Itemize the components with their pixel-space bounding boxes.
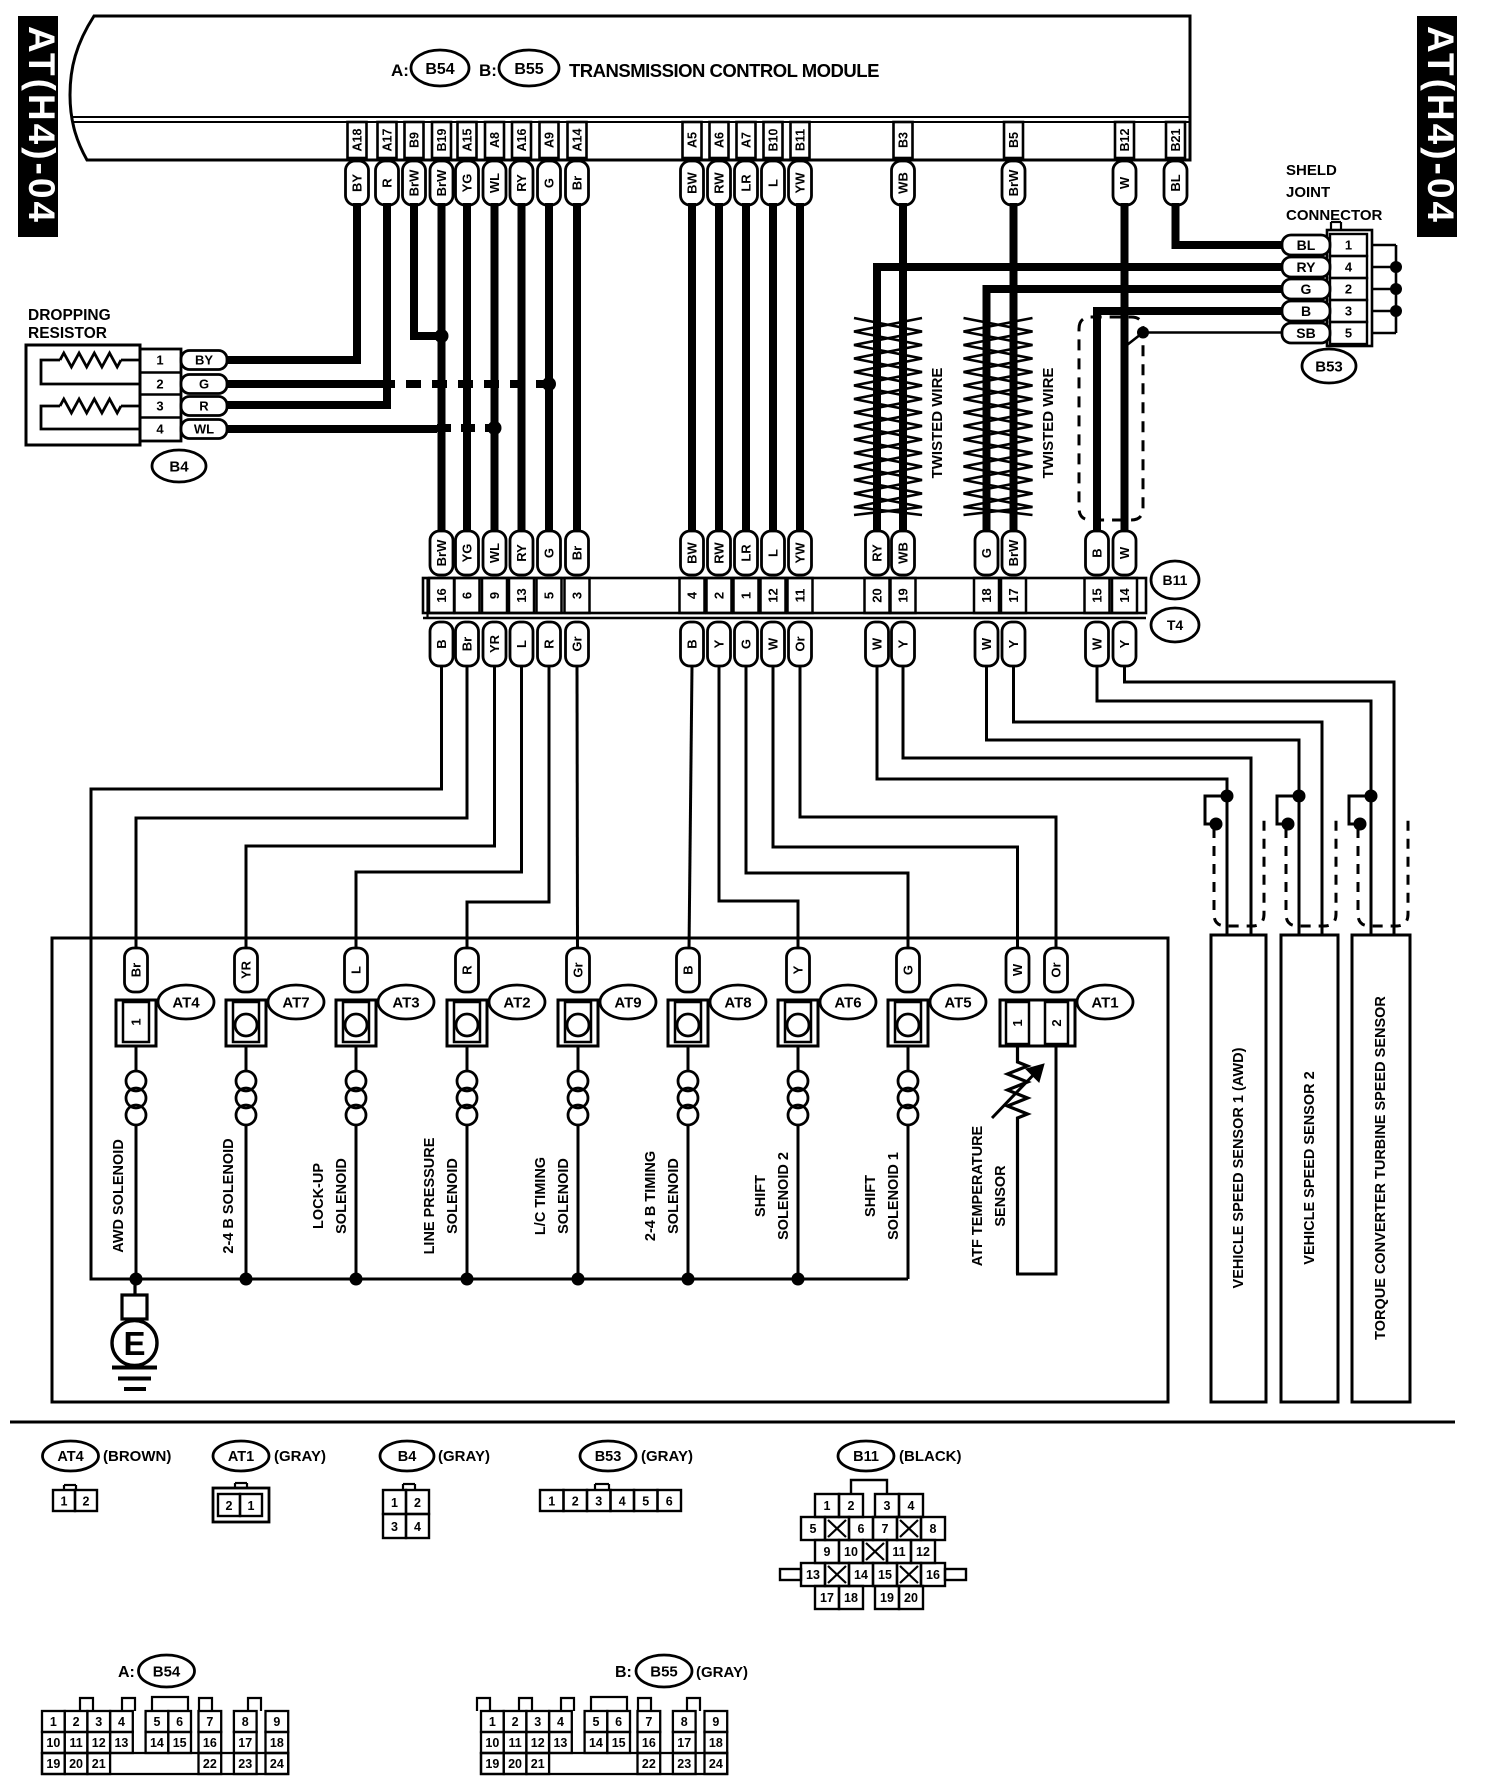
svg-text:AT2: AT2 — [503, 994, 530, 1011]
svg-text:2: 2 — [226, 1499, 233, 1513]
svg-text:B55: B55 — [514, 61, 543, 78]
label 2-4 B TIMING SOLENOID — [643, 1151, 682, 1241]
svg-text:9: 9 — [487, 592, 502, 599]
svg-text:SOLENOID: SOLENOID — [445, 1158, 461, 1234]
svg-text:8: 8 — [681, 1715, 688, 1729]
wire label W below pin 18 — [975, 622, 998, 666]
svg-text:W: W — [1117, 546, 1132, 559]
svg-text:YG: YG — [460, 174, 475, 193]
wire L from B10 to connector pin 12 — [769, 203, 777, 533]
svg-text:G: G — [901, 965, 916, 975]
wire label LR above pin 1 — [735, 531, 758, 575]
svg-text:SHELD: SHELD — [1286, 162, 1337, 179]
junction dot on ground bus x=246 — [240, 1273, 253, 1286]
svg-text:G: G — [979, 548, 994, 558]
svg-text:17: 17 — [238, 1736, 252, 1750]
label L/C TIMING SOLENOID — [533, 1157, 572, 1235]
ATF temperature sensor thermistor — [992, 1046, 1044, 1274]
svg-text:RESISTOR: RESISTOR — [28, 325, 107, 342]
svg-text:B4: B4 — [169, 458, 189, 475]
svg-text:B21: B21 — [1169, 128, 1183, 151]
svg-text:YW: YW — [793, 172, 808, 194]
svg-text:W: W — [766, 637, 781, 650]
shield drain connection to SB wire — [1127, 327, 1286, 346]
svg-text:A9: A9 — [543, 132, 557, 148]
solenoid connector body AT8 — [668, 1000, 708, 1046]
TCM pin A5 — [683, 122, 702, 158]
svg-text:22: 22 — [203, 1757, 217, 1771]
svg-text:20: 20 — [904, 1591, 918, 1605]
ATF temperature sensor loop — [1018, 1046, 1057, 1274]
svg-text:13: 13 — [553, 1736, 567, 1750]
wire B from pin 4 to 2-4 B timing solenoid — [689, 666, 692, 950]
svg-text:ATF TEMPERATURE: ATF TEMPERATURE — [970, 1125, 986, 1266]
dropping resistor connector pins — [140, 349, 181, 441]
svg-text:Or: Or — [793, 636, 808, 651]
wire label WL above pin 9 — [483, 531, 506, 575]
svg-text:15: 15 — [612, 1736, 626, 1750]
connector label AT3 — [378, 985, 434, 1019]
svg-text:SHIFT: SHIFT — [753, 1175, 769, 1217]
legend AT4 pin layout — [53, 1485, 97, 1511]
junction dot G / dropping resistor pin 2 — [542, 377, 556, 391]
shield joint connector terminal G pin 2 — [1282, 279, 1330, 299]
svg-text:BrW: BrW — [434, 539, 449, 566]
wire label L at pin B10 — [762, 161, 785, 205]
wire R from A17 to dropping resistor pin 3 — [226, 203, 387, 405]
TCM pin A9 — [540, 122, 559, 158]
wire BrW from B5 to connector pin 17 (twisted) — [1010, 203, 1018, 533]
wire label G below pin 1 — [735, 622, 758, 666]
svg-text:AT4: AT4 — [172, 994, 200, 1011]
legend connector A: B54 — [118, 1655, 195, 1687]
svg-text:20: 20 — [508, 1757, 522, 1771]
wire BW from A5 to connector pin 4 — [688, 203, 696, 533]
wire YW from B11 to connector pin 11 — [796, 203, 804, 533]
wire label Br at pin A14 — [566, 161, 589, 205]
svg-text:14: 14 — [854, 1568, 868, 1582]
wire label YW at pin B11 — [789, 161, 812, 205]
label SHIFT SOLENOID 1 — [863, 1152, 902, 1240]
svg-text:AT6: AT6 — [834, 994, 861, 1011]
svg-text:AT8: AT8 — [724, 994, 751, 1011]
svg-text:SOLENOID: SOLENOID — [334, 1158, 350, 1234]
svg-text:16: 16 — [642, 1736, 656, 1750]
svg-text:2: 2 — [73, 1715, 80, 1729]
wire label RY above pin 20 — [866, 531, 889, 575]
junction dot BrW B9/B19 — [435, 329, 449, 343]
shield joint connector terminal B pin 3 — [1282, 301, 1330, 321]
solenoid coil AT2 — [457, 1046, 477, 1279]
svg-text:Br: Br — [460, 637, 475, 651]
connector B11/T4 pin 15 — [1085, 578, 1110, 613]
svg-text:W: W — [979, 637, 994, 650]
svg-text:3: 3 — [95, 1715, 102, 1729]
svg-text:B: B — [434, 639, 449, 648]
svg-text:23: 23 — [238, 1757, 252, 1771]
svg-text:4: 4 — [156, 422, 164, 437]
svg-text:6: 6 — [666, 1495, 673, 1509]
svg-text:A8: A8 — [488, 132, 502, 148]
junction dot on ground bus x=578 — [572, 1273, 585, 1286]
svg-text:Y: Y — [896, 639, 911, 648]
wire label YG above pin 6 — [456, 531, 479, 575]
wire label YG at pin A15 — [456, 161, 479, 205]
solenoid connector body AT9 — [558, 1000, 598, 1046]
svg-text:DROPPING: DROPPING — [28, 307, 111, 324]
solenoid connector body AT2 — [447, 1000, 487, 1046]
wire label YW above pin 11 — [789, 531, 812, 575]
wire label L above pin 12 — [762, 531, 785, 575]
svg-text:B53: B53 — [1315, 358, 1343, 375]
connector B11/T4 pin 12 — [761, 578, 786, 613]
svg-text:18: 18 — [844, 1591, 858, 1605]
wire W from pin 15 to turbine speed sensor — [1097, 666, 1371, 935]
junction dot WL / dropping resistor pin 4 — [488, 421, 502, 435]
wire label WL at pin A8 — [483, 161, 506, 205]
solenoid assembly box — [52, 938, 1168, 1402]
separator line — [10, 1421, 1455, 1424]
svg-text:13: 13 — [114, 1736, 128, 1750]
legend B11 pin layout — [780, 1480, 966, 1609]
svg-text:BW: BW — [685, 541, 700, 563]
svg-text:15: 15 — [878, 1568, 892, 1582]
svg-text:B: B — [1090, 548, 1105, 557]
svg-text:9: 9 — [712, 1715, 719, 1729]
svg-text:RY: RY — [514, 544, 529, 562]
legend B4 pin layout — [383, 1484, 429, 1538]
svg-text:B54: B54 — [153, 1663, 181, 1680]
svg-text:A5: A5 — [686, 132, 700, 148]
svg-text:A17: A17 — [381, 128, 395, 151]
svg-text:SB: SB — [1296, 325, 1315, 341]
wire label RW above pin 2 — [708, 531, 731, 575]
svg-text:21: 21 — [92, 1757, 106, 1771]
svg-text:16: 16 — [203, 1736, 217, 1750]
legend B53 pin layout — [540, 1484, 681, 1511]
svg-text:2: 2 — [156, 377, 163, 392]
legend AT1 pin layout — [213, 1483, 269, 1522]
svg-text:A15: A15 — [461, 128, 475, 151]
svg-text:YR: YR — [487, 634, 502, 653]
svg-text:17: 17 — [677, 1736, 691, 1750]
svg-text:2: 2 — [414, 1496, 421, 1510]
svg-text:E: E — [123, 1325, 145, 1362]
svg-text:19: 19 — [880, 1591, 894, 1605]
svg-text:5: 5 — [542, 592, 557, 599]
TCM pin A8 — [485, 122, 504, 158]
wire label W at pin B12 — [1113, 161, 1136, 205]
wire RY from A16 to connector pin 13 — [518, 203, 526, 533]
svg-text:JOINT: JOINT — [1286, 184, 1330, 201]
svg-text:3: 3 — [884, 1499, 891, 1513]
dropping resistor terminal G pin 2 — [181, 375, 227, 394]
svg-text:Y: Y — [712, 639, 727, 648]
wire Y from pin 17 to vehicle speed sensor 2 — [1014, 666, 1323, 935]
svg-text:LINE PRESSURE: LINE PRESSURE — [422, 1137, 438, 1254]
svg-text:B54: B54 — [425, 61, 454, 78]
svg-text:L: L — [349, 966, 364, 974]
svg-text:G: G — [542, 548, 557, 558]
connector B11/T4 pin 9 — [482, 578, 507, 613]
wire RW from A6 to connector pin 2 — [715, 203, 723, 533]
junction dot on ground bus x=798 — [792, 1273, 805, 1286]
svg-text:1: 1 — [61, 1495, 68, 1509]
TCM pin B10 — [764, 122, 783, 158]
wire BrW from B9 joining B19 wire — [414, 203, 442, 336]
connector label AT2 — [489, 985, 545, 1019]
svg-text:B:: B: — [479, 61, 497, 80]
svg-text:2: 2 — [712, 592, 727, 599]
svg-text:5: 5 — [592, 1715, 599, 1729]
svg-text:WB: WB — [896, 172, 911, 194]
connector label AT6 — [820, 985, 876, 1019]
svg-text:3: 3 — [570, 592, 585, 599]
svg-text:4: 4 — [685, 591, 700, 599]
svg-text:R: R — [542, 639, 557, 649]
svg-text:AT(H4)-04: AT(H4)-04 — [21, 26, 62, 225]
svg-text:AT5: AT5 — [944, 994, 971, 1011]
svg-text:SOLENOID 2: SOLENOID 2 — [776, 1152, 792, 1240]
connector label AT7 — [268, 985, 324, 1019]
connector B11/T4 pin 6 — [455, 578, 480, 613]
svg-text:VEHICLE SPEED SENSOR 1 (AWD): VEHICLE SPEED SENSOR 1 (AWD) — [1231, 1047, 1247, 1288]
shield joint connector B53 body — [1327, 222, 1372, 346]
shield joint connector terminal BL pin 1 — [1282, 235, 1330, 255]
svg-text:AT1: AT1 — [1091, 994, 1118, 1011]
svg-text:TORQUE CONVERTER TURBINE SPEED: TORQUE CONVERTER TURBINE SPEED SENSOR — [1373, 996, 1389, 1340]
svg-text:AT9: AT9 — [614, 994, 641, 1011]
svg-text:Gr: Gr — [570, 636, 585, 651]
svg-text:B55: B55 — [650, 1663, 678, 1680]
label TWISTED WIRE (right pair) — [1040, 368, 1057, 479]
TCM pin A6 — [710, 122, 729, 158]
svg-text:6: 6 — [176, 1715, 183, 1729]
page tag AT(H4)-04 top-left — [18, 16, 62, 237]
junction dot on ground bus x=136 — [130, 1273, 143, 1286]
svg-text:R: R — [199, 399, 209, 414]
transmission control module box — [70, 16, 1190, 160]
svg-text:AT7: AT7 — [282, 994, 309, 1011]
svg-text:Br: Br — [570, 176, 585, 190]
solenoid connector terminal B (AT8) — [677, 948, 700, 992]
solenoid coil AT7 — [236, 1046, 256, 1279]
wire label BrW at pin B19 — [430, 161, 453, 205]
junction dot on ground bus x=688 — [682, 1273, 695, 1286]
svg-text:TRANSMISSION CONTROL MODULE: TRANSMISSION CONTROL MODULE — [569, 60, 879, 81]
legend connector AT4 (BROWN) — [43, 1441, 172, 1471]
TCM pin B3 — [894, 122, 913, 158]
connector B11/T4 pin 4 — [680, 578, 705, 613]
legend connector B11 (BLACK) — [838, 1441, 961, 1471]
wire label BrW above pin 16 — [430, 531, 453, 575]
svg-text:RW: RW — [712, 172, 727, 194]
svg-text:AT3: AT3 — [392, 994, 419, 1011]
label SHIFT SOLENOID 2 — [753, 1152, 792, 1240]
svg-text:B9: B9 — [408, 132, 422, 148]
resistor element pins 3-4 — [41, 399, 140, 429]
shield (dashed) at turbine speed sensor — [1358, 820, 1408, 926]
TCM pin B9 — [405, 122, 424, 158]
svg-text:SHIFT: SHIFT — [863, 1175, 879, 1217]
svg-text:8: 8 — [242, 1715, 249, 1729]
svg-text:B4: B4 — [398, 1449, 417, 1465]
solenoid connector body AT4 — [116, 1000, 156, 1046]
TCM pin B12 — [1115, 122, 1134, 158]
label TWISTED WIRE (left pair) — [929, 368, 946, 479]
wire W from B12 to connector pin 14 — [1121, 203, 1129, 533]
connector B11/T4 pin 17 — [1001, 578, 1026, 613]
svg-text:20: 20 — [870, 588, 885, 602]
svg-text:(BLACK): (BLACK) — [899, 1448, 961, 1465]
svg-text:5: 5 — [810, 1522, 817, 1536]
svg-text:TWISTED WIRE: TWISTED WIRE — [1040, 368, 1057, 479]
vehicle speed sensor 2 box — [1281, 935, 1338, 1402]
solenoid connector terminal Br (AT4) — [125, 948, 148, 992]
connector strip B11/T4 — [423, 578, 1146, 618]
wire BL from B21 to shield joint connector pin 1 — [1176, 203, 1287, 245]
svg-text:15: 15 — [173, 1736, 187, 1750]
svg-text:11: 11 — [892, 1545, 905, 1559]
svg-text:B3: B3 — [897, 132, 911, 148]
svg-text:B:: B: — [615, 1664, 632, 1681]
svg-text:6: 6 — [858, 1522, 865, 1536]
svg-text:1: 1 — [1345, 238, 1352, 253]
wire label Or below pin 11 — [789, 622, 812, 666]
wire label Br above pin 3 — [566, 531, 589, 575]
svg-text:19: 19 — [46, 1757, 60, 1771]
svg-text:16: 16 — [926, 1568, 940, 1582]
svg-text:1: 1 — [50, 1715, 57, 1729]
svg-text:(GRAY): (GRAY) — [274, 1448, 326, 1465]
svg-text:Gr: Gr — [571, 962, 586, 977]
svg-text:LR: LR — [739, 174, 754, 192]
label SHELD JOINT CONNECTOR — [1286, 162, 1383, 224]
svg-text:BrW: BrW — [434, 169, 449, 196]
svg-text:B11: B11 — [853, 1449, 879, 1465]
shield (dashed) around B/W wires — [1079, 317, 1143, 520]
solenoid connector terminal R (AT2) — [456, 948, 479, 992]
dropping resistor terminal BY pin 1 — [181, 351, 227, 370]
connector label AT1 — [1077, 985, 1133, 1019]
svg-text:10: 10 — [485, 1736, 499, 1750]
wire label B below pin 4 — [681, 622, 704, 666]
svg-text:3: 3 — [595, 1495, 602, 1509]
svg-text:RW: RW — [712, 542, 727, 564]
solenoid connector terminal Y (AT6) — [787, 948, 810, 992]
svg-text:2-4 B TIMING: 2-4 B TIMING — [643, 1151, 659, 1241]
svg-text:BrW: BrW — [1006, 169, 1021, 196]
connector B11/T4 pin 11 — [788, 578, 813, 613]
shield ground hook at vehicle speed sensor 2 — [1277, 790, 1306, 831]
wire Br from A14 to connector pin 3 — [573, 203, 581, 533]
svg-text:W: W — [1117, 176, 1132, 189]
svg-text:12: 12 — [92, 1736, 106, 1750]
svg-text:8: 8 — [930, 1522, 937, 1536]
label 2-4 B SOLENOID — [221, 1138, 237, 1253]
svg-text:15: 15 — [1090, 588, 1105, 602]
svg-text:A16: A16 — [515, 128, 529, 151]
wire label Y below pin 14 — [1113, 622, 1136, 666]
legend B54 pin layout — [42, 1697, 288, 1774]
svg-text:2-4 B SOLENOID: 2-4 B SOLENOID — [221, 1138, 237, 1253]
wire Br from pin 6 to AWD solenoid — [136, 666, 467, 950]
wire label YR below pin 9 — [483, 622, 506, 666]
svg-text:6: 6 — [615, 1715, 622, 1729]
svg-text:1: 1 — [548, 1495, 555, 1509]
svg-text:17: 17 — [1006, 588, 1021, 602]
svg-text:L: L — [514, 640, 529, 648]
connector label AT9 — [600, 985, 656, 1019]
wire LR from A7 to connector pin 1 — [742, 203, 750, 533]
shield joint connector terminal SB pin 5 — [1282, 323, 1330, 343]
svg-text:24: 24 — [270, 1757, 284, 1771]
solenoid coil AT3 — [346, 1046, 366, 1279]
solenoid coil AT6 — [788, 1046, 808, 1279]
svg-text:11: 11 — [793, 589, 808, 603]
svg-text:BY: BY — [350, 174, 365, 192]
TCM pin B21 — [1166, 122, 1185, 158]
svg-text:L: L — [766, 549, 781, 557]
wire label R below pin 5 — [538, 622, 561, 666]
solenoid connector body AT5 — [888, 1000, 928, 1046]
wire G from pin 1 to shift solenoid 1 — [746, 666, 908, 950]
shield joint connector bridge — [1372, 245, 1402, 333]
svg-text:SOLENOID 1: SOLENOID 1 — [886, 1152, 902, 1240]
svg-text:11: 11 — [69, 1736, 82, 1750]
svg-text:AT4: AT4 — [57, 1449, 83, 1465]
svg-text:A14: A14 — [571, 128, 585, 151]
svg-text:19: 19 — [896, 588, 911, 602]
svg-text:(GRAY): (GRAY) — [696, 1664, 748, 1681]
wire G from A9 to connector pin 5 — [545, 203, 553, 533]
svg-text:3: 3 — [391, 1520, 398, 1534]
svg-text:SOLENOID: SOLENOID — [556, 1158, 572, 1234]
svg-text:BL: BL — [1168, 174, 1183, 191]
svg-text:RY: RY — [870, 544, 885, 562]
wire Gr from pin 3 to L/C timing solenoid — [576, 666, 580, 950]
resistor element pins 1-2 — [41, 353, 140, 384]
svg-text:AT(H4)-04: AT(H4)-04 — [1420, 26, 1461, 225]
svg-text:12: 12 — [916, 1545, 930, 1559]
svg-text:18: 18 — [270, 1736, 284, 1750]
wire label Br below pin 6 — [456, 622, 479, 666]
svg-text:B: B — [1301, 303, 1311, 319]
wire WL from resistor pin 4 to A8 wire — [226, 428, 491, 429]
svg-text:Br: Br — [570, 546, 585, 560]
svg-text:14: 14 — [1117, 588, 1132, 603]
solenoid connector body AT7 — [226, 1000, 266, 1046]
wire B from pin 16 to ground point — [91, 666, 442, 1279]
label LINE PRESSURE SOLENOID — [422, 1137, 461, 1254]
vehicle speed sensor 1 box — [1211, 935, 1266, 1402]
wire label WB at pin B3 — [892, 161, 915, 205]
svg-text:RY: RY — [1297, 259, 1317, 275]
svg-text:WL: WL — [487, 173, 502, 193]
svg-text:Y: Y — [791, 965, 806, 974]
TCM pin A18 — [348, 122, 367, 158]
connector B11/T4 pin 18 — [974, 578, 999, 613]
svg-text:BrW: BrW — [1006, 539, 1021, 566]
wire WL from A8 to connector pin 9 — [491, 203, 499, 533]
svg-text:(GRAY): (GRAY) — [438, 1448, 490, 1465]
svg-text:2: 2 — [1049, 1019, 1064, 1026]
connector B11/T4 pin 13 — [509, 578, 534, 613]
svg-text:BL: BL — [1297, 237, 1316, 253]
svg-text:4: 4 — [557, 1715, 564, 1729]
svg-text:W: W — [1090, 637, 1105, 650]
svg-text:16: 16 — [434, 588, 449, 602]
